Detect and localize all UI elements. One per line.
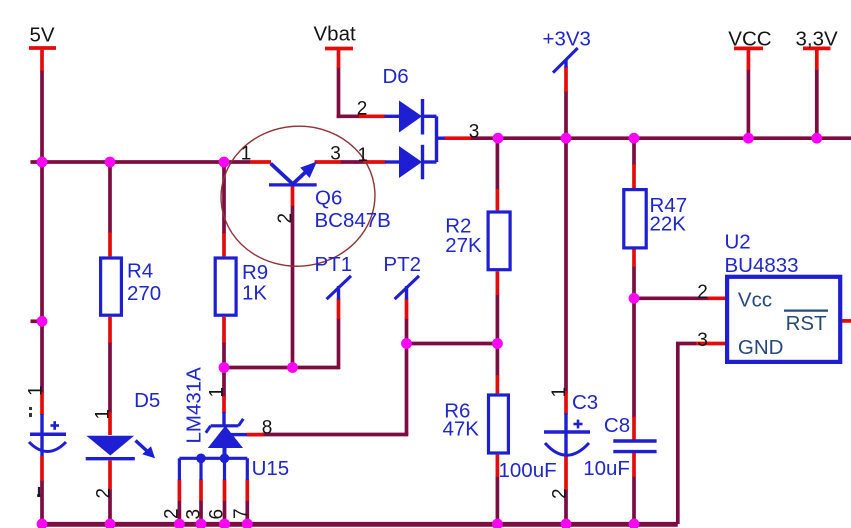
svg-text:1: 1 bbox=[241, 144, 252, 165]
svg-text:1: 1 bbox=[26, 385, 47, 396]
svg-text:100uF: 100uF bbox=[499, 459, 557, 482]
svg-text:GND: GND bbox=[738, 336, 784, 359]
svg-text:10uF: 10uF bbox=[583, 457, 630, 480]
svg-text:1: 1 bbox=[93, 409, 114, 420]
svg-text:PT2: PT2 bbox=[383, 253, 421, 276]
svg-text:3: 3 bbox=[469, 121, 480, 142]
svg-text:U15: U15 bbox=[252, 457, 290, 480]
svg-text:2: 2 bbox=[275, 213, 296, 224]
svg-text:22K: 22K bbox=[650, 213, 687, 236]
svg-text:Q6: Q6 bbox=[315, 187, 342, 210]
svg-text:1: 1 bbox=[206, 387, 227, 398]
svg-text:Vbat: Vbat bbox=[314, 22, 356, 45]
svg-text:8: 8 bbox=[262, 417, 273, 438]
svg-text:VCC: VCC bbox=[728, 27, 771, 50]
svg-text:1: 1 bbox=[549, 387, 570, 398]
svg-text:1K: 1K bbox=[242, 282, 267, 305]
svg-text:2: 2 bbox=[697, 282, 708, 303]
svg-text:C8: C8 bbox=[604, 414, 630, 437]
svg-text:D5: D5 bbox=[134, 389, 160, 412]
svg-text:7: 7 bbox=[231, 508, 252, 519]
svg-text:BC847B: BC847B bbox=[315, 209, 391, 232]
svg-text:2: 2 bbox=[357, 98, 368, 119]
svg-text:BU4833: BU4833 bbox=[725, 254, 799, 277]
svg-text:1: 1 bbox=[358, 145, 369, 166]
svg-text:3: 3 bbox=[330, 143, 341, 164]
svg-text:2: 2 bbox=[94, 488, 115, 499]
svg-text:U2: U2 bbox=[725, 230, 751, 253]
svg-text:R9: R9 bbox=[242, 261, 268, 284]
svg-text:R4: R4 bbox=[127, 259, 153, 282]
svg-text:Vcc: Vcc bbox=[738, 289, 772, 312]
svg-text:LM431A: LM431A bbox=[183, 367, 206, 444]
svg-text:D6: D6 bbox=[383, 65, 409, 88]
svg-text:6: 6 bbox=[207, 509, 228, 520]
svg-text:5V: 5V bbox=[30, 24, 55, 47]
svg-text:3: 3 bbox=[184, 509, 205, 520]
svg-text:270: 270 bbox=[127, 282, 161, 305]
svg-text:C3: C3 bbox=[572, 391, 598, 414]
svg-text:+3V3: +3V3 bbox=[543, 27, 591, 50]
svg-text:RST: RST bbox=[786, 312, 827, 335]
svg-text:27K: 27K bbox=[445, 234, 482, 257]
svg-text:3: 3 bbox=[697, 330, 708, 351]
svg-text:3,3V: 3,3V bbox=[796, 27, 838, 50]
svg-text:2: 2 bbox=[550, 488, 571, 499]
svg-text:PT1: PT1 bbox=[315, 253, 353, 276]
svg-text:2: 2 bbox=[162, 508, 183, 519]
svg-text:47K: 47K bbox=[443, 417, 480, 440]
